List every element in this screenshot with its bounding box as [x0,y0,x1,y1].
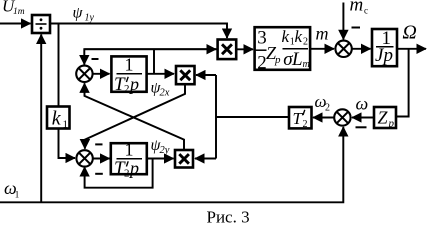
svg-text:2x: 2x [160,88,170,99]
svg-text:2: 2 [124,168,130,180]
svg-text:k: k [295,27,303,46]
svg-text:1m: 1m [13,7,25,17]
svg-text:1: 1 [125,140,134,160]
svg-text:p: p [274,54,281,66]
svg-text:p: p [382,45,394,66]
svg-text:2y: 2y [160,145,170,156]
svg-text:p: p [388,118,395,130]
svg-text:c: c [364,6,368,16]
svg-text:2: 2 [303,119,308,130]
svg-text:L: L [291,49,303,70]
svg-text:m: m [316,24,329,44]
svg-text:k: k [282,27,290,46]
svg-text:k: k [52,108,62,130]
svg-text:1: 1 [15,190,19,200]
svg-text:m: m [350,0,364,16]
svg-text:2: 2 [303,37,308,48]
svg-text:1: 1 [63,119,69,131]
svg-text:1: 1 [125,55,134,75]
svg-text:1y: 1y [85,13,95,24]
svg-text:p: p [128,74,139,94]
svg-text:ω: ω [356,94,369,114]
svg-text:Ω: Ω [402,21,416,43]
svg-text:2: 2 [325,103,330,114]
svg-text:2: 2 [124,83,130,95]
svg-text:p: p [128,158,139,178]
svg-text:ψ: ψ [73,4,84,21]
svg-text:Z: Z [378,108,389,128]
svg-text:Рис. 3: Рис. 3 [207,208,250,225]
svg-text:m: m [303,59,310,70]
